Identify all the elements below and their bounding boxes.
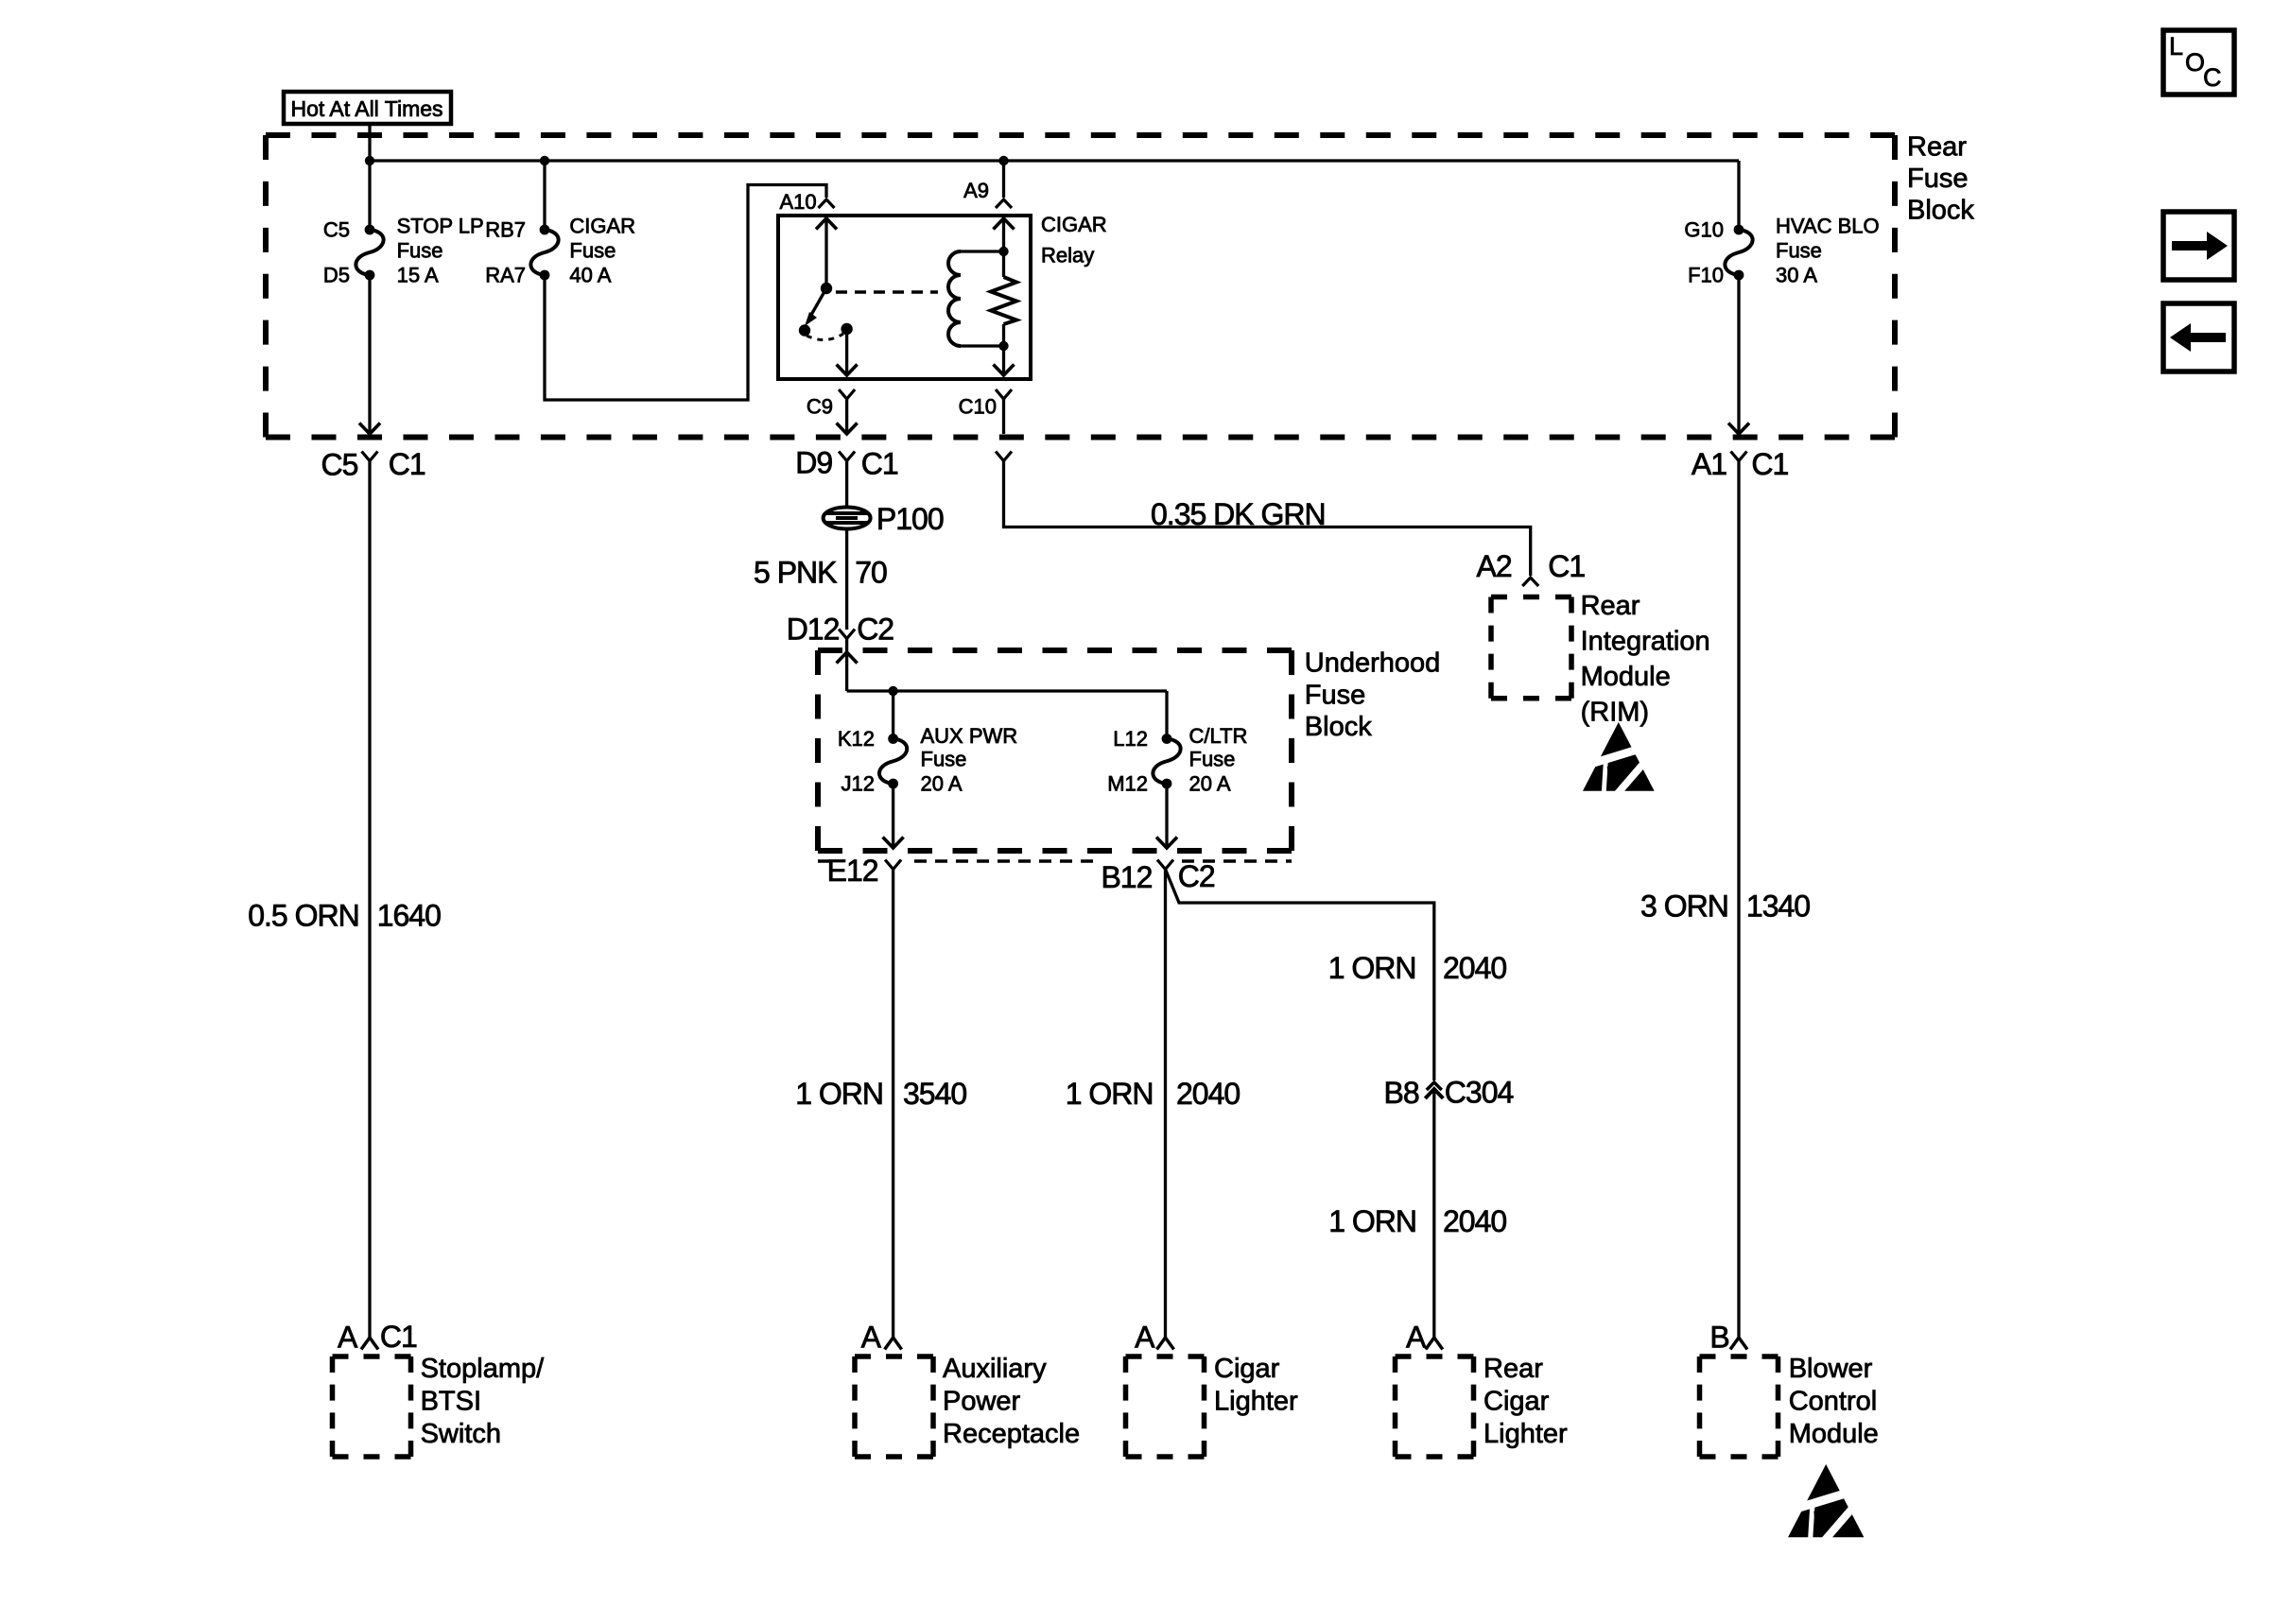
svg-text:Switch: Switch (421, 1419, 501, 1449)
connector A2/C1 (RIM) (1522, 578, 1538, 586)
svg-text:C1: C1 (1548, 549, 1585, 583)
wire power bus (370, 159, 1739, 162)
relay switch blade (811, 288, 826, 315)
Rear Cigar Lighter box (1396, 1354, 1474, 1359)
fuse AUX PWR 20A (K12-J12) (879, 739, 907, 785)
svg-text:Power: Power (943, 1387, 1021, 1417)
svg-text:K12: K12 (838, 727, 875, 751)
connector pin A (Stoplamp) (361, 1338, 378, 1350)
svg-text:Fuse: Fuse (1189, 748, 1236, 771)
wire C304 to Rear Cigar Lighter, 1 ORN 2040 (1432, 1089, 1435, 1338)
svg-text:C1: C1 (389, 447, 425, 481)
svg-text:O: O (2185, 48, 2205, 77)
svg-text:1 ORN: 1 ORN (1328, 1204, 1416, 1238)
svg-text:20 A: 20 A (921, 772, 963, 796)
relay A9 internal line and resistor (1002, 216, 1005, 277)
fuse HVAC BLO 30A (G10-F10) (1725, 230, 1752, 275)
wire bus corner down to HVAC BLO fuse (1737, 161, 1740, 230)
svg-text:1 ORN: 1 ORN (795, 1077, 883, 1111)
svg-text:Rear: Rear (1484, 1354, 1543, 1384)
wire C9 to block edge (845, 399, 848, 434)
svg-text:30 A: 30 A (1776, 264, 1817, 287)
wire distribution inside underhood block (847, 689, 1167, 692)
wire C10 to Rear Integration Module, 0.35 DK GRN (1004, 461, 1531, 577)
wire RA7 to relay A10 (545, 185, 826, 401)
wire C10 to block edge (1002, 399, 1005, 434)
relay switch common (from A10) (824, 216, 827, 288)
svg-text:1 ORN: 1 ORN (1328, 951, 1416, 985)
connector pin C9 (839, 389, 855, 399)
fuse C/LTR 20A (L12-M12) (1153, 739, 1180, 785)
svg-text:40 A: 40 A (569, 264, 611, 287)
relay CIGAR box (778, 216, 1031, 379)
svg-text:A: A (1406, 1321, 1427, 1355)
svg-text:Integration: Integration (1581, 627, 1710, 657)
relay switch contacts (799, 324, 810, 336)
svg-text:3 ORN: 3 ORN (1640, 890, 1728, 924)
connector D9/C1 (839, 452, 855, 461)
svg-text:C304: C304 (1445, 1075, 1514, 1109)
connector pin A9 (1002, 161, 1005, 198)
ESD sensitivity symbol (RIM) (1580, 722, 1655, 796)
svg-text:5 PNK: 5 PNK (754, 555, 837, 589)
svg-text:D12: D12 (787, 613, 840, 647)
svg-text:Hot At All Times: Hot At All Times (290, 96, 442, 121)
junction bus/cigar-fuse (540, 156, 549, 165)
svg-text:Rear: Rear (1907, 132, 1967, 163)
wire bus to C5 (368, 161, 371, 230)
junction bus/stop-lp (365, 156, 374, 165)
svg-text:CIGAR: CIGAR (1041, 213, 1107, 236)
Cigar Lighter box (1126, 1354, 1205, 1359)
svg-text:B: B (1709, 1321, 1728, 1355)
wire E12 to Auxiliary Power Receptacle, 1 ORN 3540 (892, 870, 894, 1339)
connector pin A (Rear Cigar Lighter) (1426, 1338, 1443, 1350)
wire P100 to D12, label 5 PNK 70 (845, 528, 848, 630)
relay coil (948, 251, 961, 346)
connector A1/C1 (1731, 452, 1747, 461)
svg-text:C2: C2 (857, 613, 894, 647)
svg-text:G10: G10 (1684, 218, 1724, 242)
wire A1 C1 to Blower Control Module, 3 ORN 1340 (1737, 461, 1740, 1339)
svg-text:A1: A1 (1692, 447, 1726, 481)
svg-text:A10: A10 (779, 190, 816, 214)
wire D5 down to block edge (368, 275, 371, 434)
wire D12 entering underhood block (845, 639, 848, 692)
wire B12 branch to Rear Cigar Lighter (1166, 870, 1434, 1081)
svg-text:STOP LP: STOP LP (397, 215, 484, 238)
svg-text:2040: 2040 (1443, 951, 1506, 985)
svg-text:C1: C1 (861, 447, 898, 481)
svg-text:Auxiliary: Auxiliary (943, 1354, 1047, 1384)
svg-text:E12: E12 (827, 854, 878, 888)
wire C1 to Stoplamp/BTSI switch (368, 461, 371, 1339)
svg-text:AUX PWR: AUX PWR (921, 724, 1018, 748)
svg-text:3540: 3540 (903, 1077, 966, 1111)
Rear Integration Module box (1491, 595, 1571, 600)
svg-text:15 A: 15 A (397, 264, 439, 287)
svg-text:BTSI: BTSI (421, 1387, 481, 1417)
svg-text:D9: D9 (795, 446, 832, 480)
connector pin A (Cigar Lighter) (1157, 1338, 1174, 1350)
svg-text:Cigar: Cigar (1214, 1354, 1280, 1384)
connector C5/C1 (362, 452, 378, 461)
svg-text:0.5 ORN: 0.5 ORN (248, 898, 358, 932)
svg-text:Receptacle: Receptacle (943, 1419, 1080, 1449)
Stoplamp/BTSI Switch box (333, 1354, 411, 1359)
Underhood Fuse Block boundary (dashed) (818, 648, 1292, 653)
relay coil taps on A9 line (998, 247, 1008, 256)
junction bus/A9 (998, 156, 1008, 165)
svg-text:Fuse: Fuse (921, 748, 967, 771)
relay control dashed link (836, 290, 938, 294)
svg-text:Stoplamp/: Stoplamp/ (421, 1354, 546, 1384)
connector plane C2 (fine dashed) (818, 859, 834, 863)
svg-text:Blower: Blower (1789, 1354, 1873, 1384)
svg-text:Control: Control (1789, 1387, 1878, 1417)
svg-text:70: 70 (855, 555, 887, 589)
svg-text:M12: M12 (1107, 772, 1148, 796)
svg-text:Fuse: Fuse (569, 239, 616, 263)
svg-text:RB7: RB7 (485, 218, 526, 242)
svg-text:F10: F10 (1688, 264, 1724, 287)
connector pin E12 (885, 860, 901, 870)
node Hot At All Times label (284, 92, 451, 124)
wire from Hot At All Times into fuse block (368, 124, 371, 161)
splice P100 (824, 508, 871, 529)
svg-text:C5: C5 (321, 448, 357, 482)
svg-text:P100: P100 (876, 502, 944, 536)
svg-text:A9: A9 (963, 179, 989, 202)
Rear Fuse Block boundary (dashed) (266, 132, 1895, 138)
svg-text:B12: B12 (1101, 860, 1152, 894)
fuse CIGAR 40A (RB7-RA7) (530, 230, 558, 275)
connector pin B (Blower Control Module) (1730, 1338, 1747, 1350)
svg-text:Block: Block (1907, 196, 1974, 226)
svg-text:1 ORN: 1 ORN (1066, 1077, 1154, 1111)
svg-text:J12: J12 (842, 772, 875, 796)
ESD sensitivity symbol (Blower Control Module) (1785, 1464, 1864, 1542)
svg-text:(RIM): (RIM) (1581, 698, 1649, 728)
connector pin A10 (819, 199, 835, 208)
svg-text:CIGAR: CIGAR (569, 215, 635, 238)
wire F10 down to block edge (1737, 275, 1740, 434)
relay switch output to C9 (845, 329, 848, 375)
svg-text:C1: C1 (380, 1320, 417, 1354)
svg-text:Module: Module (1789, 1419, 1879, 1449)
svg-text:Relay: Relay (1041, 244, 1094, 268)
svg-text:A: A (1135, 1321, 1155, 1355)
connector pin C10 (996, 389, 1012, 399)
svg-text:Fuse: Fuse (1305, 680, 1365, 710)
svg-text:0.35 DK GRN: 0.35 DK GRN (1151, 497, 1326, 531)
svg-text:RA7: RA7 (485, 264, 526, 287)
svg-text:Lighter: Lighter (1214, 1387, 1298, 1417)
fuse STOP LP 15A (C5-D5) (356, 230, 383, 275)
svg-text:C: C (2203, 63, 2222, 92)
connector D12/C2 (839, 630, 855, 639)
relay switch travel arc (dashed) (807, 334, 843, 340)
svg-text:Fuse: Fuse (1776, 239, 1822, 263)
svg-text:Cigar: Cigar (1484, 1387, 1550, 1417)
connector pin B12/C2 (1157, 860, 1173, 870)
svg-text:Fuse: Fuse (1907, 164, 1968, 194)
right-arrow navigation box (2163, 212, 2234, 280)
svg-text:C5: C5 (323, 218, 350, 242)
svg-text:A2: A2 (1477, 549, 1512, 583)
svg-text:L12: L12 (1113, 727, 1148, 751)
wire J12 to E12 (892, 784, 894, 848)
LOC reference box (2163, 30, 2234, 95)
svg-text:Rear: Rear (1581, 591, 1640, 621)
svg-text:2040: 2040 (1176, 1077, 1240, 1111)
svg-text:Underhood: Underhood (1305, 648, 1441, 678)
wire bus to RB7 (543, 161, 546, 230)
svg-text:1340: 1340 (1746, 890, 1810, 924)
connector C10 below border (996, 452, 1012, 461)
svg-text:L: L (2169, 32, 2183, 60)
svg-text:D5: D5 (323, 264, 350, 287)
wire B12 to Cigar Lighter, 1 ORN 2040 (1164, 870, 1167, 1339)
connector pin A (Aux Pwr) (885, 1338, 902, 1350)
Blower Control Module box (1700, 1354, 1778, 1359)
svg-text:HVAC BLO: HVAC BLO (1776, 215, 1880, 238)
connector B8/C304 (1427, 1082, 1442, 1090)
junction K12 branch (888, 686, 897, 696)
left-arrow navigation box (2163, 303, 2234, 371)
svg-text:2040: 2040 (1443, 1204, 1506, 1238)
svg-text:C/LTR: C/LTR (1189, 724, 1248, 748)
svg-text:C2: C2 (1178, 859, 1215, 893)
svg-text:A: A (861, 1321, 882, 1355)
svg-text:Module: Module (1581, 662, 1671, 692)
svg-text:C1: C1 (1751, 447, 1788, 481)
svg-text:C9: C9 (807, 395, 833, 419)
svg-text:C10: C10 (959, 395, 997, 419)
wire D9 C1 down to P100 (845, 461, 848, 509)
svg-text:Lighter: Lighter (1484, 1419, 1568, 1449)
svg-text:20 A: 20 A (1189, 772, 1231, 796)
svg-text:B8: B8 (1384, 1076, 1419, 1110)
svg-text:Fuse: Fuse (397, 239, 443, 263)
Auxiliary Power Receptacle box (855, 1354, 933, 1359)
svg-text:1640: 1640 (377, 898, 441, 932)
wire M12 to B12 (1165, 784, 1168, 848)
svg-text:A: A (338, 1321, 358, 1355)
svg-text:Block: Block (1305, 712, 1372, 742)
